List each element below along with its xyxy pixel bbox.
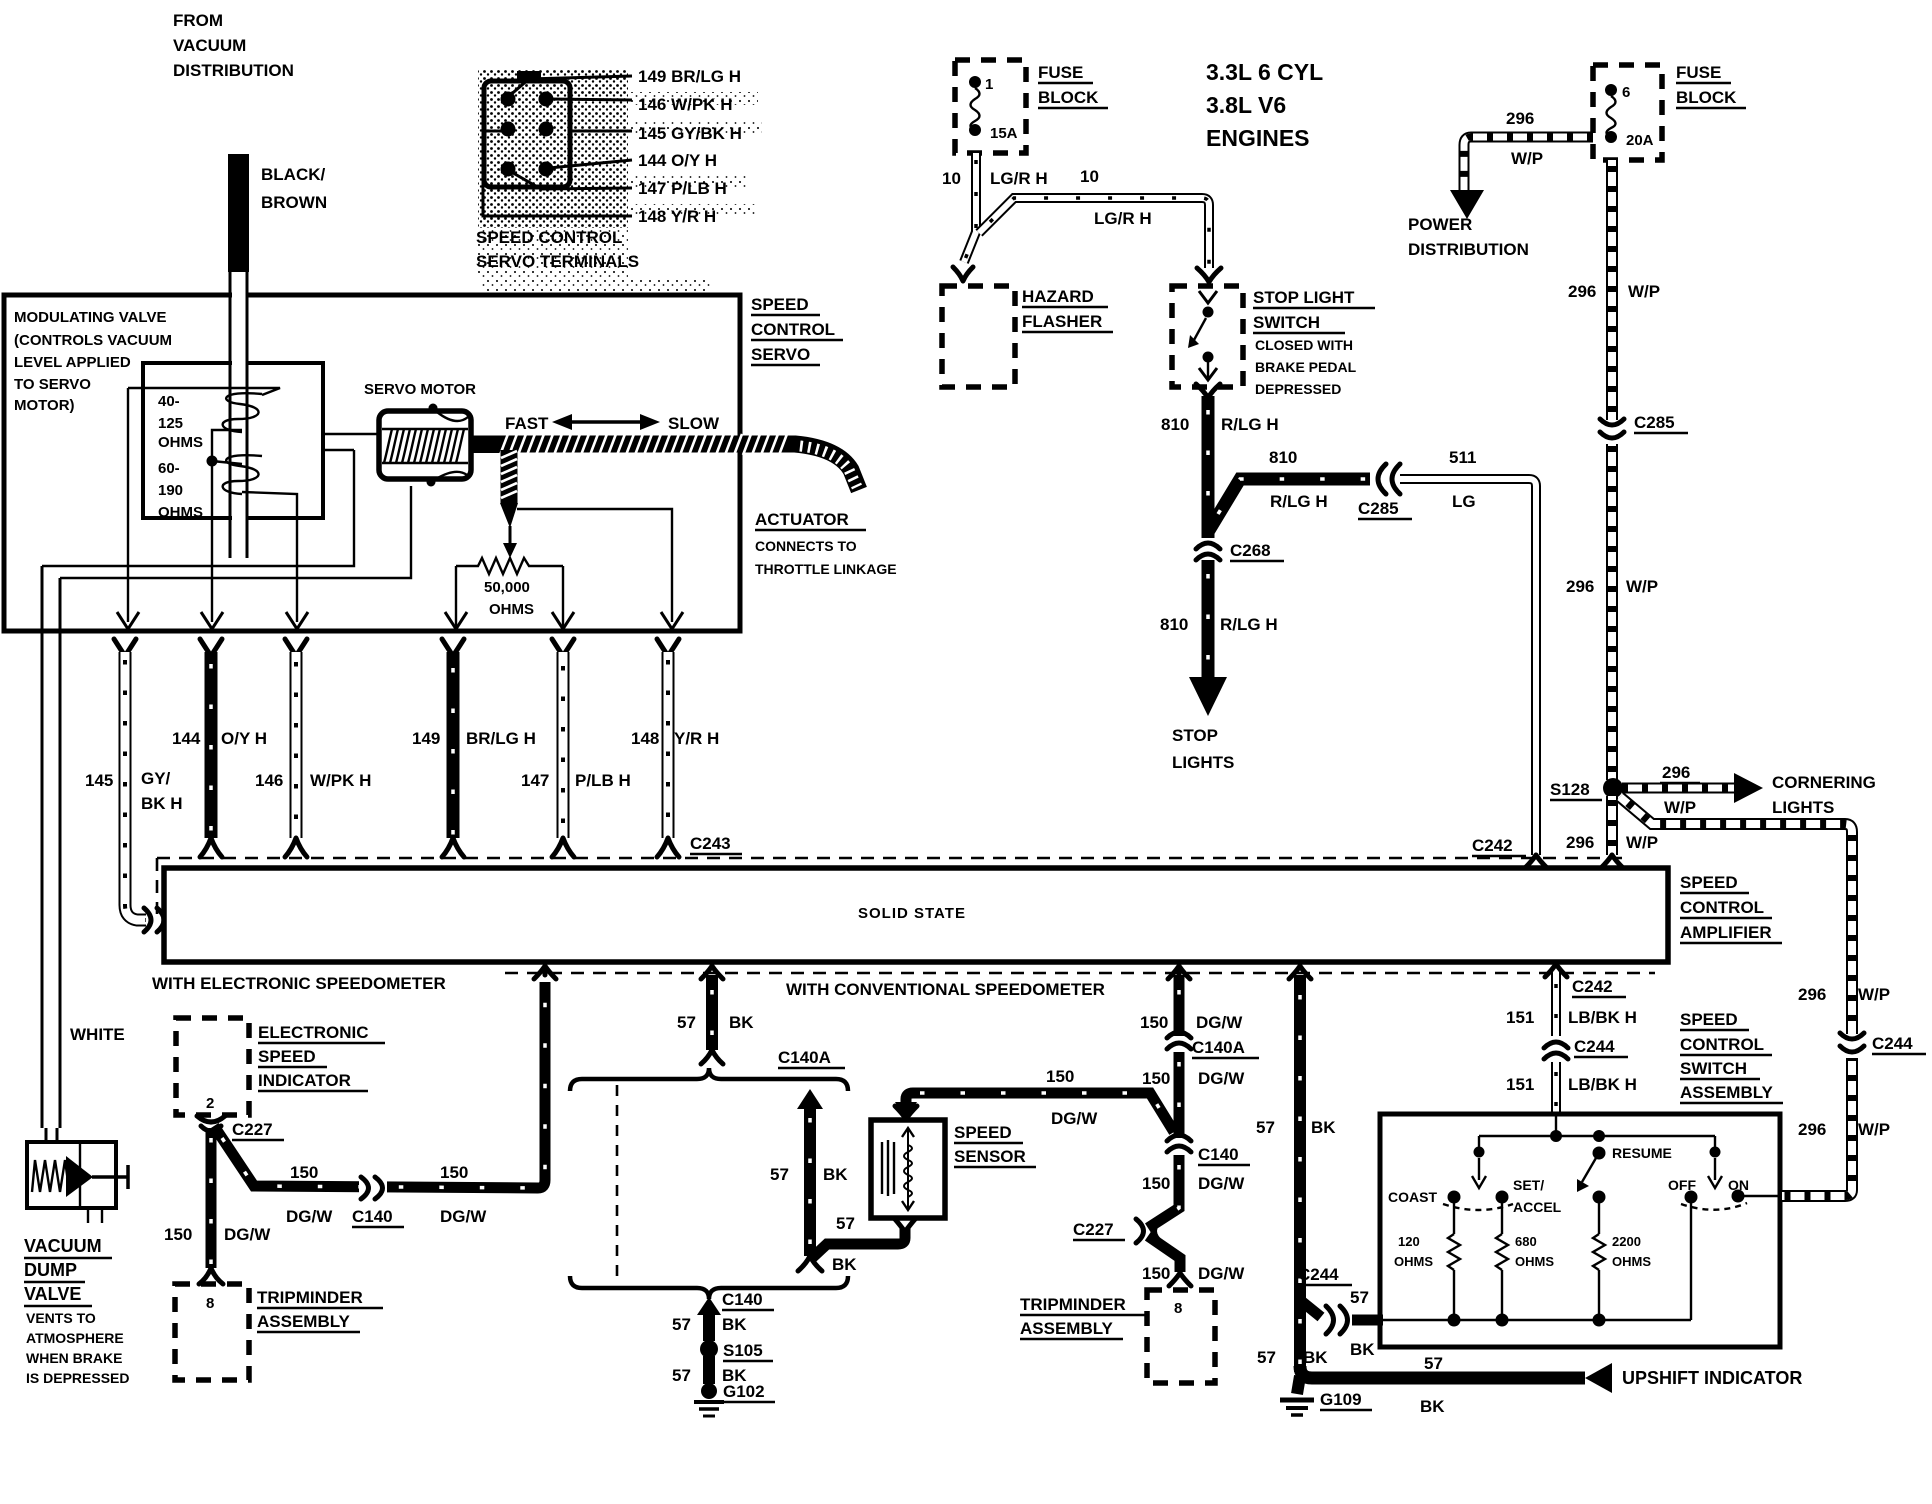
wire 150 DG/W conventional vertical	[1168, 966, 1190, 1036]
svg-text:C140: C140	[1198, 1145, 1239, 1164]
svg-text:144: 144	[172, 729, 201, 748]
wire 296 W/P to power distribution	[1450, 137, 1593, 219]
svg-text:147: 147	[521, 771, 549, 790]
svg-text:57: 57	[672, 1315, 691, 1334]
svg-text:LEVEL APPLIED: LEVEL APPLIED	[14, 354, 131, 371]
svg-text:2: 2	[206, 1095, 214, 1112]
labels 150 DG/W C140 150 DG/W	[286, 1163, 487, 1227]
svg-text:680: 680	[1515, 1234, 1537, 1249]
wire 146 to terminal	[549, 99, 632, 100]
label 3.3L 6 CYL 3.8L V6 ENGINES	[1206, 59, 1323, 151]
svg-text:57: 57	[770, 1165, 789, 1184]
svg-text:146 W/PK H: 146 W/PK H	[638, 95, 732, 114]
svg-text:ATMOSPHERE: ATMOSPHERE	[26, 1330, 124, 1346]
svg-text:SWITCH: SWITCH	[1253, 313, 1320, 332]
wire 810 R/LG H to stop lights	[1189, 560, 1227, 716]
svg-text:R/LG H: R/LG H	[1270, 492, 1328, 511]
svg-text:296: 296	[1506, 109, 1534, 128]
label SERVO MOTOR	[364, 381, 476, 398]
svg-text:BLOCK: BLOCK	[1676, 88, 1737, 107]
contact SET/ACCEL	[1496, 1177, 1562, 1215]
svg-text:150: 150	[1142, 1264, 1170, 1283]
label 810 R/LG H	[1160, 615, 1278, 634]
svg-text:2200: 2200	[1612, 1234, 1641, 1249]
svg-text:511: 511	[1449, 448, 1476, 467]
svg-text:SWITCH: SWITCH	[1680, 1059, 1747, 1078]
connector C140A (inline)	[1165, 1032, 1193, 1050]
svg-text:1: 1	[985, 76, 993, 93]
svg-text:VALVE: VALVE	[24, 1284, 81, 1304]
svg-text:DEPRESSED: DEPRESSED	[1255, 381, 1341, 397]
wire coil1 top to node 145	[128, 388, 280, 395]
dashed line below amplifier	[505, 972, 1655, 975]
svg-text:W/P: W/P	[1858, 1120, 1890, 1139]
svg-text:FAST: FAST	[505, 414, 549, 433]
ground G109	[1280, 1376, 1314, 1415]
svg-text:3.8L V6: 3.8L V6	[1206, 92, 1286, 118]
wire 296 W/P fuse to S128	[1606, 160, 1618, 780]
label 151 LB/BK H	[1506, 1075, 1637, 1094]
svg-text:P/LB H: P/LB H	[575, 771, 631, 790]
svg-text:TRIPMINDER: TRIPMINDER	[257, 1288, 363, 1307]
wire 57 BK inside harness	[797, 1089, 823, 1271]
svg-text:10: 10	[942, 169, 961, 188]
label 57 BK	[672, 1315, 747, 1334]
speed control amplifier box SOLID STATE	[164, 868, 1668, 962]
connector C243 dashed harness line	[157, 858, 1625, 914]
servo motor coil	[379, 404, 471, 487]
wire 296 W/P S128 to amplifier C242	[1601, 796, 1623, 868]
wire 151 LB/BK H amplifier to switch	[1545, 964, 1567, 1036]
label C242	[1572, 977, 1626, 997]
label POWER DISTRIBUTION	[1408, 215, 1529, 259]
svg-text:C243: C243	[690, 834, 731, 853]
svg-text:S128: S128	[1550, 780, 1590, 799]
wire 57 BK S105 to G102	[703, 1356, 715, 1384]
svg-text:ASSEMBLY: ASSEMBLY	[1020, 1319, 1114, 1338]
svg-text:57: 57	[1256, 1118, 1275, 1137]
svg-text:RESUME: RESUME	[1612, 1145, 1672, 1161]
label HAZARD FLASHER	[1022, 287, 1113, 332]
wire coil common to node 144	[212, 430, 242, 622]
svg-text:WHITE: WHITE	[70, 1025, 125, 1044]
svg-text:CORNERING: CORNERING	[1772, 773, 1876, 792]
svg-text:LG: LG	[1452, 492, 1476, 511]
label 511 LG	[1449, 448, 1476, 511]
wire 145 GY/BK H (hose)	[114, 639, 146, 920]
speed control servo terminals connector (grey stippled block)	[478, 70, 762, 291]
svg-text:120: 120	[1398, 1234, 1420, 1249]
svg-text:C242: C242	[1472, 836, 1513, 855]
svg-text:WHEN BRAKE: WHEN BRAKE	[26, 1350, 122, 1366]
label 150 DG/W	[1142, 1174, 1245, 1193]
svg-text:SOLID STATE: SOLID STATE	[858, 905, 966, 922]
svg-text:20A: 20A	[1626, 132, 1654, 149]
svg-text:R/LG H: R/LG H	[1221, 415, 1279, 434]
svg-text:BLOCK: BLOCK	[1038, 88, 1099, 107]
svg-text:57: 57	[677, 1013, 696, 1032]
wire 57 BK branch to C244	[1300, 1300, 1321, 1317]
off/on moving contact	[1681, 1136, 1747, 1210]
svg-text:151: 151	[1506, 1008, 1534, 1027]
wire 10 LG/R H to hazard flasher	[953, 153, 976, 281]
connector C244 (inline)	[1326, 1306, 1348, 1334]
svg-text:CONNECTS TO: CONNECTS TO	[755, 538, 857, 554]
connector C244 (inline on 151)	[1544, 1042, 1568, 1059]
wire 147 P/LB H (hose)	[552, 639, 574, 857]
svg-text:OHMS: OHMS	[489, 601, 534, 618]
wire 57 BK stub to C140A harness	[701, 966, 723, 1064]
svg-text:BR/LG H: BR/LG H	[466, 729, 536, 748]
tripminder assembly box (right)	[1147, 1290, 1215, 1383]
arrows at servo box bottom edge	[117, 612, 683, 629]
label ACTUATOR CONNECTS TO THROTTLE LINKAGE	[755, 510, 897, 577]
svg-text:150: 150	[1142, 1174, 1170, 1193]
svg-text:LIGHTS: LIGHTS	[1772, 798, 1834, 817]
svg-text:BK: BK	[832, 1255, 857, 1274]
wire 296 W/P to cornering lights	[1622, 773, 1763, 803]
wire 296 W/P S128 to switch assembly	[1620, 797, 1852, 1196]
wire 150 DG/W speed sensor feed	[895, 1093, 1174, 1132]
svg-text:ACCEL: ACCEL	[1513, 1199, 1562, 1215]
actuator hatched bar	[471, 434, 859, 490]
svg-text:296: 296	[1566, 833, 1594, 852]
connector C227	[197, 1116, 225, 1131]
label STOP LIGHTS	[1172, 726, 1234, 772]
label C268	[1230, 541, 1284, 561]
svg-text:DISTRIBUTION: DISTRIBUTION	[173, 61, 294, 80]
actuator vertical stub with wiper	[500, 450, 518, 558]
connector C285 (inline on 296)	[1598, 419, 1626, 444]
label 296 W/P	[1660, 763, 1700, 817]
wire pair modulating valve to servo motor	[323, 434, 381, 450]
svg-text:LB/BK H: LB/BK H	[1568, 1075, 1637, 1094]
resistor 120 ohms	[1394, 1203, 1460, 1320]
svg-text:810: 810	[1269, 448, 1297, 467]
svg-text:S105: S105	[723, 1341, 763, 1360]
svg-text:150: 150	[1142, 1069, 1170, 1088]
wire 57 BK speed sensor to harness	[812, 1218, 916, 1258]
label 150 DG/W	[1142, 1069, 1245, 1088]
vacuum hose black/brown from vacuum distribution	[228, 154, 249, 558]
svg-text:TRIPMINDER: TRIPMINDER	[1020, 1295, 1126, 1314]
svg-text:BK H: BK H	[141, 794, 183, 813]
svg-text:VACUUM: VACUUM	[24, 1236, 102, 1256]
svg-text:60-: 60-	[158, 460, 180, 477]
actuator solid root	[470, 436, 503, 453]
brace C140 harness bottom	[570, 1276, 848, 1299]
svg-text:CLOSED WITH: CLOSED WITH	[1255, 337, 1353, 353]
svg-text:WITH ELECTRONIC SPEEDOMETER: WITH ELECTRONIC SPEEDOMETER	[152, 974, 446, 993]
wire 144 O/Y H (solid)	[200, 639, 222, 857]
svg-text:SPEED: SPEED	[751, 295, 809, 314]
label 296 W/P	[1566, 577, 1658, 596]
svg-text:ON: ON	[1728, 1177, 1749, 1193]
svg-text:296: 296	[1798, 1120, 1826, 1139]
svg-text:15A: 15A	[990, 125, 1018, 142]
svg-text:THROTTLE LINKAGE: THROTTLE LINKAGE	[755, 561, 897, 577]
wire 146 W/PK H (hose)	[285, 639, 307, 857]
svg-text:C244: C244	[1574, 1037, 1615, 1056]
svg-text:C285: C285	[1358, 499, 1399, 518]
svg-text:DG/W: DG/W	[1198, 1264, 1245, 1283]
svg-text:8: 8	[206, 1295, 214, 1312]
contact COAST	[1388, 1189, 1461, 1205]
svg-text:148 Y/R H: 148 Y/R H	[638, 207, 716, 226]
label 296 W/P	[1568, 282, 1660, 301]
svg-text:190: 190	[158, 482, 183, 499]
svg-text:DG/W: DG/W	[1198, 1069, 1245, 1088]
label S105	[723, 1341, 773, 1361]
label BLACK/BROWN	[261, 165, 327, 212]
svg-text:149: 149	[412, 729, 440, 748]
label 57 / UPSHIFT INDICATOR / BK	[1420, 1354, 1802, 1416]
svg-text:CONTROL: CONTROL	[1680, 1035, 1764, 1054]
label 810 R/LG H	[1161, 415, 1279, 434]
svg-text:W/P: W/P	[1664, 798, 1696, 817]
svg-text:R/LG H: R/LG H	[1220, 615, 1278, 634]
svg-text:147 P/LB H: 147 P/LB H	[638, 179, 727, 198]
svg-text:SPEED CONTROL: SPEED CONTROL	[476, 228, 622, 247]
svg-text:C285: C285	[1634, 413, 1675, 432]
stop light switch box	[1172, 286, 1243, 387]
hazard flasher box	[942, 286, 1015, 387]
svg-text:HAZARD: HAZARD	[1022, 287, 1094, 306]
svg-text:W/P: W/P	[1626, 833, 1658, 852]
svg-text:C227: C227	[232, 1120, 273, 1139]
svg-text:ACTUATOR: ACTUATOR	[755, 510, 849, 529]
svg-text:W/PK H: W/PK H	[310, 771, 371, 790]
svg-text:DISTRIBUTION: DISTRIBUTION	[1408, 240, 1529, 259]
switch ground bus	[1383, 1314, 1691, 1327]
resistor 50000 ohms	[456, 558, 563, 626]
svg-text:810: 810	[1160, 615, 1188, 634]
on terminal wire	[1738, 1195, 1780, 1197]
wire node 145 down	[127, 388, 129, 622]
connector C244 (inline on 296)	[1838, 1033, 1866, 1058]
label S128	[1550, 780, 1602, 800]
svg-text:BK: BK	[729, 1013, 754, 1032]
svg-text:COAST: COAST	[1388, 1189, 1437, 1205]
ground G102	[694, 1383, 724, 1416]
connector C268 (inline)	[1194, 538, 1222, 560]
svg-text:BK: BK	[722, 1315, 747, 1334]
svg-text:SPEED: SPEED	[954, 1123, 1012, 1142]
svg-text:150: 150	[164, 1225, 192, 1244]
wire 511 LG	[1400, 479, 1547, 868]
svg-text:CONTROL: CONTROL	[751, 320, 835, 339]
wire 57 BK main ground wire	[1289, 966, 1311, 1372]
svg-text:UPSHIFT INDICATOR: UPSHIFT INDICATOR	[1622, 1368, 1802, 1388]
terminal labels	[638, 67, 742, 226]
wire 148 Y/R H (hose)	[657, 639, 679, 857]
svg-text:296: 296	[1662, 763, 1690, 782]
label C244	[1872, 1034, 1926, 1054]
label VACUUM DUMP VALVE	[24, 1236, 112, 1306]
svg-text:FROM: FROM	[173, 11, 223, 30]
label C243	[690, 834, 742, 854]
connector C227 (inline X)	[1136, 1219, 1162, 1243]
label 57 BK	[770, 1165, 848, 1184]
splice S105	[700, 1340, 718, 1358]
wire 57 BK harness to S105	[697, 1297, 721, 1341]
label C227	[232, 1120, 284, 1140]
svg-text:C268: C268	[1230, 541, 1271, 560]
label CORNERING LIGHTS	[1772, 773, 1876, 817]
svg-text:DG/W: DG/W	[1196, 1013, 1243, 1032]
svg-text:DG/W: DG/W	[286, 1207, 333, 1226]
svg-text:CONTROL: CONTROL	[1680, 898, 1764, 917]
svg-text:TO SERVO: TO SERVO	[14, 376, 91, 393]
svg-text:OHMS: OHMS	[1394, 1254, 1433, 1269]
svg-text:LG/R H: LG/R H	[990, 169, 1048, 188]
label TRIPMINDER ASSEMBLY	[1020, 1295, 1146, 1339]
svg-text:SPEED: SPEED	[1680, 1010, 1738, 1029]
label G109	[1320, 1390, 1372, 1410]
svg-text:BROWN: BROWN	[261, 193, 327, 212]
svg-text:SET/: SET/	[1513, 1177, 1544, 1193]
svg-text:POWER: POWER	[1408, 215, 1472, 234]
svg-text:SLOW: SLOW	[668, 414, 720, 433]
svg-text:SERVO: SERVO	[751, 345, 810, 364]
svg-text:G102: G102	[723, 1382, 765, 1401]
svg-text:150: 150	[290, 1163, 318, 1182]
wire 57 BK to upshift indicator	[1300, 1363, 1612, 1393]
svg-text:DG/W: DG/W	[224, 1225, 271, 1244]
vacuum tube overlay	[230, 272, 247, 558]
resistor 2200 ohms	[1593, 1203, 1651, 1320]
modulating valve lower coil 60-190 ohms	[223, 455, 262, 494]
svg-text:DG/W: DG/W	[1198, 1174, 1245, 1193]
modulating valve inner box	[143, 363, 323, 518]
svg-text:C140A: C140A	[778, 1048, 831, 1067]
svg-text:C244: C244	[1298, 1265, 1339, 1284]
speed control servo box	[4, 295, 740, 631]
svg-text:VACUUM: VACUUM	[173, 36, 246, 55]
vacuum dump valve	[27, 1142, 128, 1223]
svg-text:(CONTROLS VACUUM: (CONTROLS VACUUM	[14, 332, 172, 349]
label C244	[1298, 1265, 1352, 1285]
svg-text:SENSOR: SENSOR	[954, 1147, 1026, 1166]
svg-text:146: 146	[255, 771, 283, 790]
svg-text:SERVO TERMINALS: SERVO TERMINALS	[476, 252, 639, 271]
svg-text:STOP: STOP	[1172, 726, 1218, 745]
contact 2200 top	[1593, 1191, 1606, 1204]
svg-text:6: 6	[1622, 84, 1630, 101]
svg-text:LB/BK H: LB/BK H	[1568, 1008, 1637, 1027]
svg-text:FUSE: FUSE	[1038, 63, 1083, 82]
label 150 DG/W	[164, 1225, 271, 1244]
svg-text:C244: C244	[1872, 1034, 1913, 1053]
resume lever	[1577, 1145, 1672, 1192]
label 10 LG/R H	[942, 169, 1048, 188]
label C140 (harness)	[722, 1290, 774, 1310]
svg-text:148: 148	[631, 729, 659, 748]
svg-text:144 O/Y H: 144 O/Y H	[638, 151, 717, 170]
label 57 BK	[677, 1013, 754, 1032]
wire 151 LB/BK H lower	[1551, 1062, 1561, 1116]
label FROM VACUUM DISTRIBUTION	[173, 11, 294, 80]
white vacuum hose to dump valve	[42, 566, 60, 1143]
svg-text:296: 296	[1568, 282, 1596, 301]
wire 150 DG/W indicator to tripminder	[199, 1128, 223, 1284]
wire 149 BR/LG H (solid)	[442, 639, 464, 857]
svg-text:OHMS: OHMS	[158, 434, 203, 451]
label TRIPMINDER ASSEMBLY	[257, 1288, 383, 1332]
label G102	[723, 1382, 775, 1402]
svg-text:SPEED: SPEED	[1680, 873, 1738, 892]
svg-text:INDICATOR: INDICATOR	[258, 1071, 351, 1090]
label 10 LG/R H	[1080, 167, 1152, 228]
speed sensor box	[871, 1120, 945, 1218]
label FAST SLOW with arrows	[505, 414, 720, 433]
coast/set moving contact	[1443, 1136, 1513, 1210]
wire 810 branch to C285	[1208, 479, 1370, 532]
svg-text:150: 150	[1140, 1013, 1168, 1032]
svg-text:FUSE: FUSE	[1676, 63, 1721, 82]
brace C140A harness top	[570, 1068, 848, 1091]
svg-text:DG/W: DG/W	[1051, 1109, 1098, 1128]
svg-text:50,000: 50,000	[484, 579, 530, 596]
svg-text:57: 57	[1257, 1348, 1276, 1367]
svg-text:125: 125	[158, 415, 183, 432]
wire 145 to terminal	[570, 130, 632, 133]
svg-text:MOTOR): MOTOR)	[14, 397, 75, 414]
label SPEED CONTROL SERVO	[751, 295, 843, 365]
svg-text:C140: C140	[722, 1290, 763, 1309]
svg-text:3.3L 6 CYL: 3.3L 6 CYL	[1206, 59, 1323, 85]
label C242	[1472, 836, 1526, 856]
svg-text:8: 8	[1174, 1300, 1182, 1317]
svg-text:SPEED: SPEED	[258, 1047, 316, 1066]
connector C140 (inline)	[359, 1176, 387, 1200]
label 296 W/P	[1798, 1120, 1890, 1139]
svg-text:AMPLIFIER: AMPLIFIER	[1680, 923, 1772, 942]
svg-text:DG/W: DG/W	[440, 1207, 487, 1226]
label SPEED CONTROL AMPLIFIER	[1680, 873, 1782, 943]
svg-text:W/P: W/P	[1858, 985, 1890, 1004]
connector 145 into amplifier	[144, 908, 164, 932]
label 57 BK	[832, 1214, 857, 1274]
electronic speed indicator box	[176, 1018, 249, 1115]
svg-text:C242: C242	[1572, 977, 1613, 996]
svg-text:SERVO MOTOR: SERVO MOTOR	[364, 381, 476, 398]
svg-text:40-: 40-	[158, 393, 180, 410]
svg-text:150: 150	[440, 1163, 468, 1182]
svg-text:57: 57	[1350, 1288, 1369, 1307]
tripminder assembly box (left)	[175, 1284, 249, 1380]
label C285	[1634, 413, 1688, 433]
wire wiper to node 148	[517, 509, 672, 622]
label 150 DG/W	[1046, 1067, 1098, 1128]
label SPEED CONTROL SWITCH ASSEMBLY	[1680, 1010, 1783, 1103]
svg-text:IS DEPRESSED: IS DEPRESSED	[26, 1370, 129, 1386]
label 60-190 OHMS	[158, 460, 203, 521]
wire 57 BK C244 to switch box	[1352, 1315, 1383, 1326]
off branch wire	[1690, 1203, 1692, 1320]
svg-text:W/P: W/P	[1511, 149, 1543, 168]
label 296 W/P	[1798, 985, 1890, 1004]
svg-text:C140A: C140A	[1192, 1038, 1245, 1057]
svg-text:FLASHER: FLASHER	[1022, 312, 1102, 331]
svg-text:ASSEMBLY: ASSEMBLY	[257, 1312, 351, 1331]
svg-text:OHMS: OHMS	[1612, 1254, 1651, 1269]
wire 150 DG/W C227 to tripminder	[1148, 1236, 1191, 1286]
svg-text:57: 57	[836, 1214, 855, 1233]
svg-text:BK: BK	[1303, 1348, 1328, 1367]
svg-text:151: 151	[1506, 1075, 1534, 1094]
svg-text:OHMS: OHMS	[1515, 1254, 1554, 1269]
